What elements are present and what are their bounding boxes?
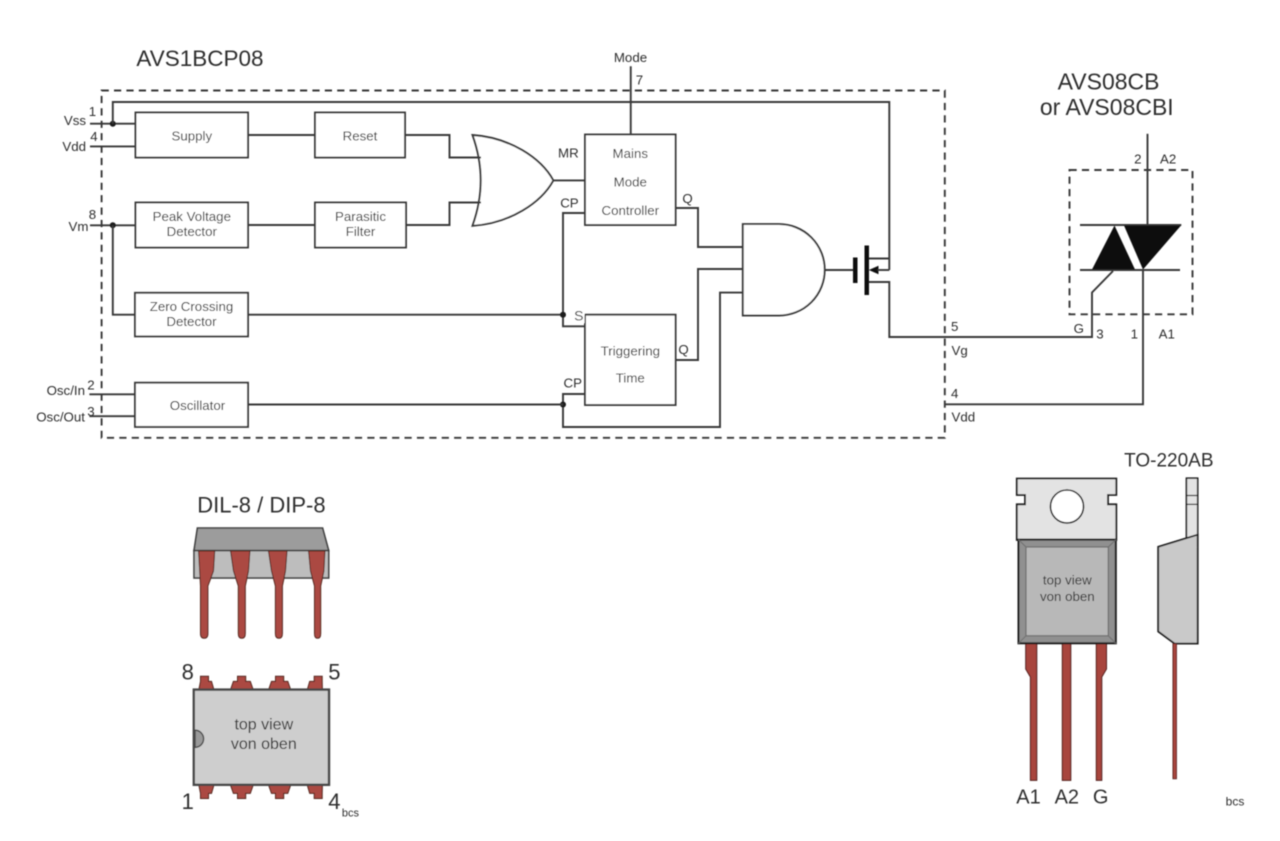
dip8 side view body front face <box>194 551 329 579</box>
wire Vdd input <box>90 145 136 147</box>
svg-text:Vdd: Vdd <box>952 410 976 425</box>
wire Peak Voltage Detector to Parasitic Filter <box>248 224 315 226</box>
to220 side tab hole lines <box>1186 495 1197 497</box>
and-gate U3 <box>743 224 825 315</box>
svg-text:Zero Crossing: Zero Crossing <box>150 299 234 314</box>
svg-text:bcs: bcs <box>1226 795 1245 809</box>
svg-text:1: 1 <box>89 104 96 119</box>
svg-text:Vdd: Vdd <box>62 139 86 154</box>
to220 leg G <box>1096 643 1106 780</box>
dip8 side view pin 2 <box>231 551 250 638</box>
svg-text:CP: CP <box>560 195 579 210</box>
transistor Q1 mosfet gate bar <box>853 258 858 284</box>
svg-text:Q: Q <box>682 191 692 206</box>
svg-text:8: 8 <box>182 659 194 684</box>
block Supply <box>136 113 249 158</box>
wire zero crossing output <box>248 314 563 316</box>
svg-text:S: S <box>574 308 583 324</box>
svg-text:4: 4 <box>328 789 340 814</box>
to220 leg A2 <box>1062 643 1071 780</box>
svg-text:7: 7 <box>636 73 643 88</box>
svg-text:Detector: Detector <box>166 314 217 329</box>
svg-text:AVS1BCP08: AVS1BCP08 <box>136 46 263 71</box>
or-gate U2 <box>473 135 554 226</box>
svg-text:Oscillator: Oscillator <box>170 398 226 413</box>
wire Triggering Q to and-gate <box>676 269 743 360</box>
to220 body outer <box>1019 540 1116 644</box>
svg-text:Vss: Vss <box>64 113 87 128</box>
svg-text:MR: MR <box>558 146 579 161</box>
svg-text:Detector: Detector <box>167 224 218 239</box>
svg-text:DIL-8 / DIP-8: DIL-8 / DIP-8 <box>197 493 325 518</box>
wire triac A2 terminal <box>1147 134 1149 225</box>
svg-text:or AVS08CBI: or AVS08CBI <box>1040 94 1174 120</box>
svg-text:TO-220AB: TO-220AB <box>1124 451 1213 472</box>
node Vm junction <box>110 222 116 228</box>
svg-text:1: 1 <box>182 789 194 814</box>
to220 side body <box>1158 535 1198 644</box>
wire Vdd pin to triac A1 <box>945 270 1143 404</box>
svg-text:5: 5 <box>951 319 958 334</box>
block Triggering Time <box>585 315 676 405</box>
svg-text:G: G <box>1093 787 1109 809</box>
block Zero Crossing Detector <box>135 293 248 337</box>
svg-text:Mode: Mode <box>614 50 647 65</box>
svg-text:Supply: Supply <box>171 129 212 144</box>
wire mosfet source to Vg pin 5 <box>869 271 1113 337</box>
wire Osc/In input <box>89 393 135 395</box>
svg-text:5: 5 <box>328 659 340 684</box>
wire oscillator output <box>248 404 563 406</box>
svg-text:Time: Time <box>616 370 645 385</box>
wire Osc/Out input <box>89 415 135 417</box>
svg-text:G: G <box>1074 321 1084 336</box>
svg-text:A1: A1 <box>1016 787 1040 809</box>
svg-text:1: 1 <box>1131 326 1138 341</box>
transistor Q1 mosfet channel bar <box>865 246 870 296</box>
triac D1 symbol <box>1080 225 1181 270</box>
svg-text:Osc/Out: Osc/Out <box>36 410 85 425</box>
wire Triggering CP loop to and-gate <box>563 293 743 427</box>
dip8 top view body <box>194 690 329 785</box>
svg-text:Vg: Vg <box>952 343 968 358</box>
svg-text:Controller: Controller <box>601 203 659 218</box>
svg-text:2: 2 <box>87 378 94 393</box>
svg-text:CP: CP <box>564 376 583 391</box>
wire or-gate to Mains MR <box>553 179 585 181</box>
wire Mains Q to and-gate <box>676 208 743 247</box>
svg-text:von oben: von oben <box>231 736 297 753</box>
node Vss junction <box>110 121 116 127</box>
to220 body inner <box>1026 547 1108 636</box>
block Parasitic Filter <box>315 203 406 248</box>
IC boundary dashed box U1 <box>102 91 945 438</box>
wire Vss to top rail <box>113 102 890 270</box>
svg-text:4: 4 <box>90 129 97 144</box>
to220 body bevel lines <box>1019 540 1116 644</box>
svg-text:Parasitic: Parasitic <box>335 209 386 224</box>
block Peak Voltage Detector <box>136 203 249 248</box>
svg-text:Peak Voltage: Peak Voltage <box>153 209 231 224</box>
wire Vm input <box>90 224 136 226</box>
wire and-gate to mosfet gate <box>825 269 853 271</box>
svg-text:AVS08CB: AVS08CB <box>1058 69 1160 95</box>
svg-text:A1: A1 <box>1159 326 1175 341</box>
label S <box>568 308 585 324</box>
svg-text:Filter: Filter <box>346 224 376 239</box>
svg-text:Mains: Mains <box>613 146 649 161</box>
dip8 top view pins lower row <box>199 785 323 799</box>
svg-text:Vm: Vm <box>69 219 89 234</box>
dip8 side view pin 4 <box>309 551 325 638</box>
to220 front tab <box>1017 479 1117 541</box>
dip8 side view top face <box>194 528 329 551</box>
block Reset <box>315 113 405 158</box>
svg-text:3: 3 <box>1096 326 1103 341</box>
svg-text:top view: top view <box>1043 573 1092 588</box>
block Oscillator <box>135 383 248 427</box>
svg-text:von oben: von oben <box>1040 589 1095 604</box>
svg-text:Osc/In: Osc/In <box>47 383 85 398</box>
node oscillator junction <box>560 402 566 408</box>
mosfet substrate arrow <box>869 266 890 275</box>
to220 leg A1 <box>1026 643 1037 780</box>
node S junction <box>560 312 566 318</box>
svg-text:Q: Q <box>678 342 688 357</box>
block Mains Mode Controller <box>585 135 676 226</box>
wire Mode input <box>630 66 632 134</box>
svg-text:top view: top view <box>234 716 293 733</box>
svg-text:Triggering: Triggering <box>601 344 660 359</box>
dip8 side view pin 3 <box>269 551 288 638</box>
to220 side tab strip <box>1186 478 1197 539</box>
svg-text:Reset: Reset <box>343 129 378 144</box>
wire Reset to or-gate <box>405 135 481 158</box>
svg-text:bcs: bcs <box>342 808 360 820</box>
svg-text:2: 2 <box>1134 151 1141 166</box>
wire Parasitic Filter to or-gate <box>406 203 481 226</box>
svg-text:4: 4 <box>951 386 958 401</box>
svg-text:8: 8 <box>89 207 96 222</box>
wire mosfet drain <box>869 258 889 260</box>
wire Mains CP to Triggering S <box>563 213 585 326</box>
dip8 top view notch <box>195 730 204 747</box>
wire Supply to Reset <box>248 134 315 136</box>
to220 side leg <box>1173 644 1177 779</box>
svg-text:A2: A2 <box>1055 787 1079 809</box>
triac dashed box <box>1070 170 1193 314</box>
wire Vm to zero crossing detector <box>113 225 135 314</box>
svg-text:A2: A2 <box>1160 151 1176 166</box>
to220 mounting hole <box>1051 490 1084 523</box>
wire Vss input <box>90 123 136 125</box>
dip8 side view pin 1 <box>199 551 215 638</box>
dip8 top view pins upper row <box>199 676 323 690</box>
svg-text:Mode: Mode <box>614 174 647 189</box>
